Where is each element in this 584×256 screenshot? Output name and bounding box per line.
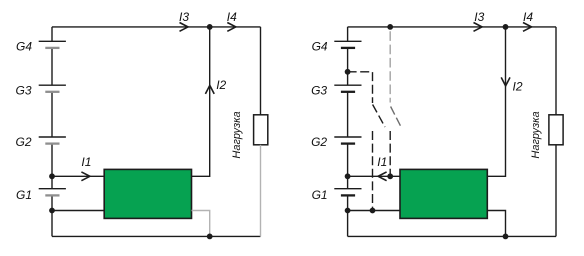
svg-text:I2: I2 (513, 79, 523, 93)
wire: top bus (right circuit) (348, 26, 556, 28)
converter unit (green box, right circuit) (400, 169, 487, 218)
battery G4 (16, 40, 66, 54)
svg-text:Нагрузка: Нагрузка (530, 111, 542, 158)
load resistor (right circuit) (530, 111, 563, 158)
node: bottom-left wire at switch link A (right circuit) (370, 208, 376, 214)
wire: bottom bus (left circuit) (52, 235, 261, 237)
switch blade B: open blade (dashed diagonal, right circuit) (391, 107, 401, 127)
battery G4 (right circuit) (312, 40, 362, 54)
wire: load bottom return (gray, left circuit) (260, 145, 262, 237)
node: top bus at switch link B (right circuit) (387, 24, 393, 30)
node: I1 wire at switch link B (right circuit) (387, 173, 393, 179)
svg-text:G3: G3 (311, 83, 327, 97)
svg-text:G1: G1 (16, 188, 32, 202)
battery G2 (15, 135, 65, 149)
converter unit (green box, left circuit) (104, 169, 191, 218)
svg-text:I3: I3 (474, 10, 484, 24)
wire: battery column segments (right circuit) (347, 27, 349, 237)
wire: converter top-right to top bus (right circuit, I2 wire) (487, 27, 505, 176)
current arrow I2 (right circuit, pointing down) (501, 77, 523, 93)
node: bottom junction (left circuit) (207, 234, 213, 240)
wire: load bottom return (right circuit) (555, 145, 557, 237)
switch link A: dashed tap from node between G4 and G3 (right circuit) (348, 72, 373, 103)
load resistor (left circuit) (231, 111, 268, 158)
node: battery column bottom-left (right circuit) (345, 208, 351, 214)
switch link B lower: dashed down to I1 wire node (right circuit) (389, 131, 391, 176)
current arrow I2 (left circuit, pointing up) (205, 78, 226, 94)
svg-text:G4: G4 (16, 40, 32, 54)
svg-text:Нагрузка: Нагрузка (231, 111, 243, 158)
current arrow I3 (left circuit) (179, 10, 189, 32)
current arrow I4 (left circuit) (227, 10, 237, 32)
wire: right side from top bus down to load (right circuit) (555, 27, 557, 115)
svg-text:I3: I3 (179, 10, 189, 24)
node: battery column to converter input (right circuit) (345, 173, 351, 179)
wire: converter bottom-right return (right circuit) (487, 211, 505, 237)
node: top junction at I2 (right circuit) (503, 24, 509, 30)
svg-text:I2: I2 (216, 78, 226, 92)
wire: node to converter bottom-left (left circuit) (52, 210, 104, 212)
switch link A lower: dashed down to bottom-left wire node (right circuit) (372, 131, 374, 211)
wire: top bus (left circuit) (52, 26, 261, 28)
svg-text:G1: G1 (312, 188, 328, 202)
node: bottom junction (right circuit) (503, 234, 509, 240)
svg-text:G2: G2 (311, 135, 327, 149)
svg-text:I4: I4 (523, 10, 533, 24)
wire: converter output up to top bus (left circuit, I2 wire) (192, 27, 210, 176)
svg-text:G2: G2 (15, 135, 31, 149)
wire: battery column segments (left circuit) (51, 27, 53, 237)
current arrow I4 (right circuit) (523, 10, 533, 32)
node: top junction (left circuit) (207, 24, 213, 30)
svg-text:I4: I4 (227, 10, 237, 24)
wire: node to converter input (left circuit, I1 wire) (52, 175, 104, 177)
svg-text:G4: G4 (312, 40, 328, 54)
node: battery column between G4 and G3 (right circuit) (345, 69, 351, 75)
battery G2 (right circuit) (311, 135, 361, 149)
wire: right side from top bus down to load (left circuit) (260, 27, 262, 115)
battery G3 (right circuit) (311, 83, 361, 97)
svg-text:I1: I1 (81, 155, 91, 169)
wire: node to converter bottom-left (right circuit) (348, 210, 400, 212)
current arrow I1 (left circuit) (81, 155, 91, 181)
battery G3 (15, 83, 65, 97)
svg-text:G3: G3 (15, 83, 31, 97)
current arrow I3 (right circuit) (474, 10, 485, 32)
wire: converter bottom-right return (gray, left circuit) (192, 211, 210, 237)
svg-text:I1: I1 (377, 155, 387, 169)
current arrow I1 (right circuit, pointing left) (377, 155, 387, 181)
battery G1 (right circuit) (312, 188, 362, 202)
wire: bottom bus (right circuit) (348, 235, 556, 237)
node: battery column to converter input (left circuit) (49, 173, 55, 179)
wire: node to converter input (right circuit, I1 wire) (348, 175, 400, 177)
node: battery column bottom-left (left circuit) (49, 208, 55, 214)
switch blade A: open blade (dashed diagonal, right circuit) (373, 105, 385, 128)
switch link B: gray dashed from top bus node (right circuit) (389, 27, 391, 103)
battery G1 (16, 188, 66, 202)
